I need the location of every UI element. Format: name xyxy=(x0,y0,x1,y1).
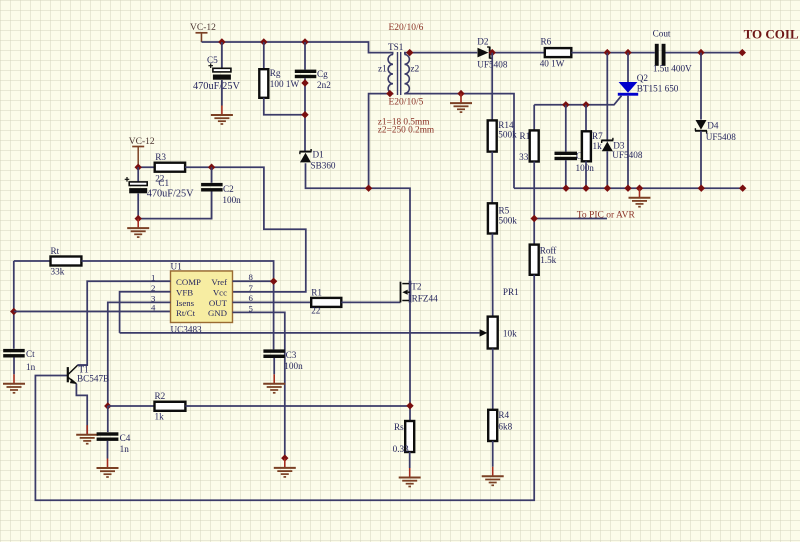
svg-text:470uF/25V: 470uF/25V xyxy=(147,189,194,200)
junction D2 output xyxy=(489,49,496,56)
junction Roff/To PIC xyxy=(531,215,538,222)
value 100n of C3 xyxy=(284,361,303,371)
svg-text:1.5u 400V: 1.5u 400V xyxy=(653,63,692,73)
svg-text:T2: T2 xyxy=(411,282,422,292)
wire R7 top xyxy=(585,105,587,132)
label C7 xyxy=(576,151,587,161)
wire Rg bottom loop xyxy=(264,98,305,115)
svg-text:R1: R1 xyxy=(311,288,322,298)
svg-text:UF5408: UF5408 xyxy=(612,150,643,160)
junction Rs top xyxy=(406,402,413,409)
wire R7 bottom xyxy=(585,161,587,188)
value 6k8 of R4 xyxy=(498,422,512,432)
svg-text:Ct: Ct xyxy=(26,349,35,359)
value IRFZ44 of T2 xyxy=(409,294,439,304)
label C5 xyxy=(207,55,218,65)
junction secondary ground xyxy=(457,90,464,97)
value 0.33 of Rs xyxy=(393,444,409,454)
value 2n2 of Cg xyxy=(317,80,331,90)
capacitor C4 xyxy=(97,432,119,441)
svg-text:33k: 33k xyxy=(51,267,65,277)
wire C5 bottom xyxy=(221,80,223,106)
svg-text:SB360: SB360 xyxy=(311,161,336,171)
svg-text:D1: D1 xyxy=(313,150,325,160)
wire R15 bottom to Roff xyxy=(533,162,535,245)
wire C2 column xyxy=(211,167,213,183)
capacitor C2 xyxy=(201,183,223,192)
svg-text:C2: C2 xyxy=(223,184,234,194)
label UC3483 xyxy=(171,325,203,335)
junction D1/TS1 node xyxy=(365,185,372,192)
svg-text:D2: D2 xyxy=(477,36,489,46)
pin name VFB xyxy=(176,288,193,298)
pin number 1 xyxy=(151,272,155,282)
net label E20/10/5 xyxy=(389,98,424,108)
wire bottom output rail xyxy=(514,187,743,189)
wire pin1 COMP xyxy=(78,281,171,365)
wire R4 bottom xyxy=(492,441,494,467)
label R5 xyxy=(499,205,510,215)
wire TS1 secondary bottom xyxy=(405,93,514,188)
label C1 xyxy=(158,178,169,188)
capacitor C1 xyxy=(125,177,148,193)
label z1 xyxy=(378,64,387,74)
value UF5408 of D2 xyxy=(477,60,508,70)
wire VC12 to R3 xyxy=(138,166,155,168)
label R3 xyxy=(155,152,166,162)
junction C1 bottom/ground xyxy=(135,215,142,222)
svg-text:z1: z1 xyxy=(378,64,387,74)
capacitor Cout xyxy=(655,44,666,66)
thyristor Q2 BT151 xyxy=(618,82,638,96)
svg-text:0.33: 0.33 xyxy=(393,444,409,454)
wire C5 top xyxy=(221,42,223,68)
svg-text:10k: 10k xyxy=(503,329,517,339)
value 1.5k of Roff xyxy=(540,255,556,265)
label D2 xyxy=(477,36,489,46)
arrow PR1 wiper xyxy=(480,329,488,336)
junction TS1 primary bottom pin xyxy=(386,90,393,97)
value 500k of R5 xyxy=(499,215,518,225)
value 470uF/25V of C1 xyxy=(147,189,194,200)
wire T1 collector jog xyxy=(78,364,88,366)
net label TO COIL xyxy=(744,27,799,42)
wire C4 top xyxy=(107,406,109,432)
wire R15 top xyxy=(533,105,535,131)
ground below R4 xyxy=(482,467,504,486)
value 10k of PR1 xyxy=(503,329,517,339)
junction C2 top xyxy=(208,164,215,171)
svg-text:Rt/Ct: Rt/Ct xyxy=(176,308,196,318)
ground at TS1 secondary xyxy=(450,94,472,113)
svg-text:COMP: COMP xyxy=(176,277,201,287)
label D3 xyxy=(613,141,625,151)
svg-text:1n: 1n xyxy=(26,362,36,372)
value SB360 of D1 xyxy=(311,161,336,171)
svg-text:Rs: Rs xyxy=(394,422,404,432)
note z2=250 0.2mm xyxy=(378,126,435,136)
svg-text:C4: C4 xyxy=(120,433,131,443)
resistor R7 xyxy=(582,131,591,161)
value 1n of C4 xyxy=(120,444,130,454)
svg-text:1n: 1n xyxy=(120,444,130,454)
wire C4 bottom xyxy=(107,441,109,459)
svg-text:VFB: VFB xyxy=(176,288,193,298)
junction Rg/top rail xyxy=(260,38,267,45)
resistor R14 xyxy=(488,120,497,151)
svg-text:VC-12: VC-12 xyxy=(190,23,216,33)
wire pin2 VFB xyxy=(120,292,171,333)
node TO COIL top xyxy=(739,49,746,56)
label U1 xyxy=(171,262,183,272)
pin number 6 xyxy=(249,293,254,303)
value 33k of Rt xyxy=(51,267,65,277)
junction R7/rail xyxy=(582,185,589,192)
wire Rs bottom xyxy=(409,452,411,468)
junction D3/rail xyxy=(604,185,611,192)
svg-text:6: 6 xyxy=(249,293,254,303)
capacitor C7 100n xyxy=(555,152,578,161)
label R15 xyxy=(520,131,536,141)
svg-text:R5: R5 xyxy=(499,205,510,215)
junction TS1 secondary top pin xyxy=(406,49,413,56)
label Roff xyxy=(540,245,558,255)
diode D4 UF5408 xyxy=(695,120,707,133)
resistor Rg xyxy=(259,69,268,98)
wire PR1 to R4 xyxy=(492,349,494,410)
svg-text:Rt: Rt xyxy=(51,246,60,256)
resistor Roff xyxy=(530,245,539,275)
value 330 of R15 xyxy=(519,152,533,162)
svg-text:C5: C5 xyxy=(207,55,218,65)
svg-text:500k: 500k xyxy=(499,215,518,225)
label Ct xyxy=(26,349,35,359)
svg-text:R2: R2 xyxy=(155,391,166,401)
svg-text:2n2: 2n2 xyxy=(317,80,331,90)
wire VFB to PR1 wiper xyxy=(120,332,480,334)
ground below C5 xyxy=(211,106,233,125)
label Cout xyxy=(653,29,671,39)
svg-text:U1: U1 xyxy=(171,262,183,272)
value 40 1W of R6 xyxy=(540,59,565,69)
svg-text:8: 8 xyxy=(249,272,254,282)
junction C7/rail xyxy=(562,185,569,192)
pin number 7 xyxy=(249,283,254,293)
svg-text:6k8: 6k8 xyxy=(498,422,512,432)
note z1=18 0.5mm xyxy=(378,118,430,128)
value BT151 650 of Q2 xyxy=(637,83,679,93)
svg-text:Cout: Cout xyxy=(653,29,671,39)
svg-text:Vcc: Vcc xyxy=(213,288,227,298)
junction Cg/top rail xyxy=(301,38,308,45)
pin name OUT xyxy=(209,298,228,308)
pin number 4 xyxy=(151,303,156,313)
junction Q2/rail xyxy=(624,185,631,192)
pin name GND xyxy=(208,308,227,318)
power symbol VC-12 (top) xyxy=(196,33,208,42)
svg-text:To PIC or AVR: To PIC or AVR xyxy=(577,211,636,221)
value 470uF/25V of C5 xyxy=(193,81,240,92)
svg-text:1.5k: 1.5k xyxy=(540,255,556,265)
wire R5 to PR1 xyxy=(491,234,493,317)
ground below Ct xyxy=(3,374,25,393)
wire C2 bottom xyxy=(138,192,211,219)
label T1 xyxy=(79,365,90,375)
svg-text:7: 7 xyxy=(249,283,254,293)
net label VC-12 (top) xyxy=(190,23,216,33)
wire Cg bottom to D1 xyxy=(304,78,306,151)
svg-text:IRFZ44: IRFZ44 xyxy=(409,294,439,304)
svg-text:1k: 1k xyxy=(593,141,603,151)
resistor R3 xyxy=(155,163,185,172)
svg-text:4: 4 xyxy=(151,303,156,313)
transistor T2 IRFZ44 xyxy=(401,281,411,303)
junction Q2 top xyxy=(624,49,631,56)
label T2 xyxy=(411,282,422,292)
wire pin5 GND xyxy=(233,312,285,458)
svg-text:R4: R4 xyxy=(498,410,509,420)
net label To PIC or AVR xyxy=(577,211,636,221)
wire pin8 Vref xyxy=(233,280,274,282)
junction gate/R7 xyxy=(582,101,589,108)
wire Rt to Vref xyxy=(81,261,273,349)
capacitor Cg xyxy=(295,70,317,79)
resistor R2 xyxy=(155,402,186,411)
wire R3 to Vcc xyxy=(185,167,306,292)
pin number 8 xyxy=(249,272,254,282)
label R7 xyxy=(592,131,603,141)
wire D4 cathode up xyxy=(700,53,702,120)
label C4 xyxy=(120,433,131,443)
pin number 3 xyxy=(151,293,156,303)
svg-text:R6: R6 xyxy=(541,36,552,46)
ground at output rail xyxy=(629,188,651,207)
svg-text:D3: D3 xyxy=(613,141,625,151)
label Rs xyxy=(394,422,404,432)
ground below pin5 xyxy=(274,458,296,477)
potentiometer PR1 xyxy=(488,317,498,349)
svg-text:R3: R3 xyxy=(155,152,166,162)
value 100 1W of Rg xyxy=(270,79,300,89)
value 1k of R2 xyxy=(155,412,165,422)
svg-text:z2=250 0.2mm: z2=250 0.2mm xyxy=(378,126,435,136)
label R1 xyxy=(311,288,322,298)
label D4 xyxy=(707,120,719,130)
svg-text:40 1W: 40 1W xyxy=(540,59,565,69)
node TO COIL bottom xyxy=(739,185,746,192)
junction Cg pin xyxy=(301,79,308,86)
value 22 of R1 xyxy=(311,306,321,316)
wire Ct bottom xyxy=(13,358,15,375)
svg-text:UF5408: UF5408 xyxy=(706,132,737,142)
wire pin6 OUT to R1 xyxy=(233,301,312,303)
svg-text:100n: 100n xyxy=(222,195,241,205)
svg-text:BC547B: BC547B xyxy=(77,374,109,384)
wire Q2 cathode xyxy=(627,96,629,189)
resistor Rt xyxy=(51,257,82,266)
svg-text:Cg: Cg xyxy=(317,69,328,79)
wire R14 to R5 xyxy=(491,152,493,204)
capacitor Ct xyxy=(3,349,25,358)
wire D2 to R6 xyxy=(491,52,545,54)
power symbol VC-12 (left) xyxy=(132,147,144,168)
label D1 xyxy=(313,150,325,160)
resistor R1 xyxy=(311,298,341,307)
ground below C4 xyxy=(97,459,119,478)
svg-text:C3: C3 xyxy=(286,350,297,360)
pin number 2 xyxy=(151,283,155,293)
net label E20/10/6 xyxy=(389,23,424,33)
svg-text:TS1: TS1 xyxy=(388,42,404,52)
value 500k of R14 xyxy=(498,130,517,140)
op-amp U1 UC3483 body xyxy=(171,271,233,323)
wire D3 anode down xyxy=(606,151,608,188)
svg-text:GND: GND xyxy=(208,308,227,318)
junction Isens/R2/C4 xyxy=(104,402,111,409)
resistor R6 xyxy=(545,48,572,57)
label R6 xyxy=(541,36,552,46)
label C3 xyxy=(286,350,297,360)
label Rg xyxy=(270,68,281,78)
svg-text:470uF/25V: 470uF/25V xyxy=(193,81,240,92)
junction D4 top xyxy=(697,49,704,56)
svg-text:C1: C1 xyxy=(158,178,169,188)
svg-text:500k: 500k xyxy=(498,130,517,140)
diode D2 UF5408 xyxy=(478,47,493,59)
svg-text:Vref: Vref xyxy=(211,277,227,287)
wire R6 to Cout xyxy=(571,52,655,54)
svg-text:1k: 1k xyxy=(155,412,165,422)
wire R1 to T2 gate xyxy=(341,301,400,303)
value 1.5u 400V of Cout xyxy=(653,63,692,73)
wire top rail xyxy=(202,42,393,55)
value BC547B of T1 xyxy=(77,374,109,384)
wire T2 source xyxy=(409,303,411,421)
ground below T1 emitter xyxy=(76,425,98,444)
wire C7 top xyxy=(565,105,567,152)
wire Rg top xyxy=(263,42,265,69)
wire Vref line xyxy=(14,260,51,262)
value UF5408 of D4 xyxy=(706,132,737,142)
svg-text:z2: z2 xyxy=(411,64,420,74)
value 100n of C2 xyxy=(222,195,241,205)
wire C7 bottom xyxy=(565,160,567,188)
value UF5408 of D3 xyxy=(612,150,643,160)
junction rail ground xyxy=(636,185,643,192)
transformer TS1 core xyxy=(398,52,401,95)
label PR1 xyxy=(503,287,519,297)
svg-text:E20/10/6: E20/10/6 xyxy=(389,23,424,33)
pin name Vref xyxy=(211,277,227,287)
transformer TS1 secondary winding z2 xyxy=(405,54,410,93)
net label VC-12 (left) xyxy=(129,137,155,147)
label Cg xyxy=(317,69,328,79)
wire Cg top xyxy=(304,42,306,70)
resistor R5 xyxy=(488,203,497,233)
value 22 of R3 xyxy=(155,174,165,184)
junction Rg/Cg bottom xyxy=(301,111,308,118)
wire Rt/Ct column xyxy=(13,261,15,349)
wire D4 anode down xyxy=(700,131,702,188)
svg-text:22: 22 xyxy=(311,306,321,316)
svg-text:R14: R14 xyxy=(498,120,514,130)
wire C1 bottom xyxy=(137,194,139,219)
wire pin3 Isens xyxy=(108,302,171,406)
junction gate/C7 xyxy=(562,101,569,108)
pin name Rt/Ct xyxy=(176,308,196,318)
svg-text:BT151 650: BT151 650 xyxy=(637,83,679,93)
svg-text:VC-12: VC-12 xyxy=(129,137,155,147)
value 1n of Ct xyxy=(26,362,36,372)
wire Roff bottom loop xyxy=(35,275,534,500)
junction D4/rail xyxy=(698,185,705,192)
wire R2 to Rs xyxy=(185,405,410,407)
diode D1 SB360 xyxy=(300,149,312,162)
transistor T1 BC547B xyxy=(68,365,78,384)
value 1k of R7 xyxy=(593,141,603,151)
label C2 xyxy=(223,184,234,194)
value 100n of C7 xyxy=(576,163,595,173)
ground below Rs xyxy=(399,468,421,487)
pin name Vcc xyxy=(213,288,227,298)
wire pin4 RtCt xyxy=(14,311,171,313)
svg-text:TO COIL: TO COIL xyxy=(744,27,799,42)
svg-text:OUT: OUT xyxy=(209,298,228,308)
svg-text:Q2: Q2 xyxy=(637,73,649,83)
svg-text:100 1W: 100 1W xyxy=(270,79,300,89)
wire T1 emitter xyxy=(76,384,87,435)
resistor R15 xyxy=(530,130,539,161)
wire Q2 gate xyxy=(534,96,621,105)
wire C1 top xyxy=(137,167,139,182)
transformer TS1 primary winding z1 xyxy=(388,54,393,93)
wire TS1 secondary top xyxy=(405,53,477,55)
wire Q2 anode xyxy=(627,53,629,82)
pin name COMP xyxy=(176,277,201,287)
pin name Isens xyxy=(176,298,195,308)
junction Rt-Ct pin4 xyxy=(10,308,17,315)
label R14 xyxy=(498,120,514,130)
junction C1 top xyxy=(135,164,142,171)
wire TS1 primary bottom xyxy=(369,93,393,188)
svg-text:Isens: Isens xyxy=(176,298,195,308)
ground below C1 xyxy=(127,219,149,238)
svg-text:Roff: Roff xyxy=(540,245,558,255)
label Rt xyxy=(51,246,60,256)
wire Cout to coil xyxy=(666,52,743,54)
pin number 5 xyxy=(249,303,254,313)
svg-text:E20/10/5: E20/10/5 xyxy=(389,98,424,108)
svg-text:100n: 100n xyxy=(576,163,595,173)
capacitor C5 xyxy=(208,63,231,79)
junction pin8/Vref node xyxy=(270,278,277,285)
wire R2 left xyxy=(108,405,155,407)
label TS1 xyxy=(388,42,404,52)
wire C3 bottom xyxy=(273,358,275,374)
ground below C3 xyxy=(263,374,285,393)
svg-text:Rg: Rg xyxy=(270,68,281,78)
junction GND pin ground xyxy=(281,454,288,461)
wire To PIC or AVR xyxy=(534,218,607,220)
wire D1 anode down xyxy=(306,163,411,281)
svg-text:100n: 100n xyxy=(284,361,303,371)
diode D3 UF5408 xyxy=(601,138,613,151)
junction C5/top rail xyxy=(218,38,225,45)
label Q2 xyxy=(637,73,649,83)
resistor R4 xyxy=(488,410,497,441)
junction D3 top xyxy=(604,49,611,56)
svg-text:PR1: PR1 xyxy=(503,287,519,297)
